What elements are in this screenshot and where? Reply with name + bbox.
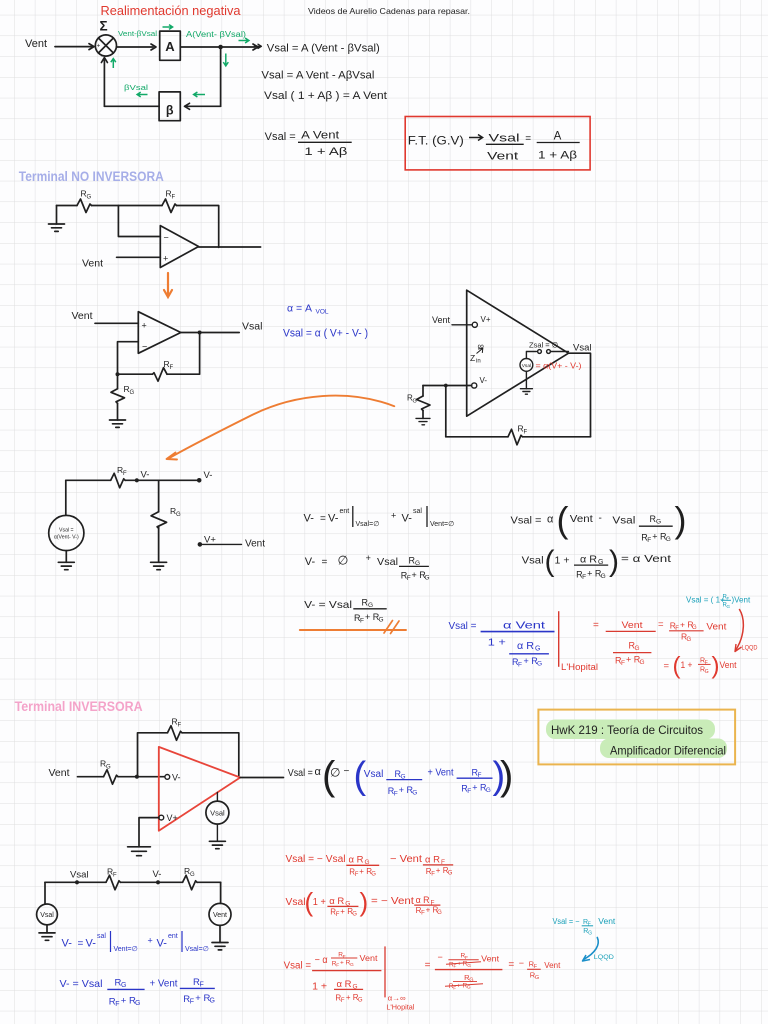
pin V+ terminal — [472, 322, 477, 327]
svg-text:α R: α R — [580, 555, 597, 566]
svg-text:+ Vent: + Vent — [428, 768, 454, 779]
svg-text:-: - — [599, 513, 602, 524]
svg-text:Vsal: Vsal — [364, 769, 384, 780]
resistor Rg — [104, 770, 119, 785]
wire top rail right + drop to output — [177, 206, 219, 248]
svg-text:in: in — [476, 359, 481, 365]
wire inverting input — [118, 342, 139, 375]
svg-text:G: G — [535, 646, 540, 653]
svg-text:G: G — [469, 978, 473, 984]
svg-text:=: = — [425, 960, 431, 971]
op-amp U1 triangle — [160, 226, 198, 268]
svg-text:G: G — [705, 669, 709, 675]
svg-text:α = A: α = A — [287, 303, 312, 315]
svg-text:F: F — [524, 430, 528, 436]
svg-text:V-: V- — [204, 470, 213, 481]
svg-text:G: G — [106, 765, 111, 771]
svg-text:G: G — [448, 871, 453, 877]
svg-text:α(Vent- V-): α(Vent- V-) — [54, 535, 79, 541]
svg-text:G: G — [412, 790, 417, 797]
svg-text:F: F — [588, 921, 591, 927]
svg-text:−: − — [164, 233, 169, 243]
resistor Rg vertical — [158, 480, 160, 512]
svg-text:): ) — [675, 499, 687, 540]
svg-text:F: F — [454, 964, 457, 970]
svg-text:Vent=∅: Vent=∅ — [114, 946, 138, 953]
svg-text:): ) — [360, 887, 369, 917]
svg-text:Vsal: Vsal — [40, 912, 54, 919]
svg-text:G: G — [130, 390, 135, 396]
svg-text:Vsal =: Vsal = — [288, 767, 313, 779]
ground G4 — [416, 418, 430, 424]
svg-text:Vsal =: Vsal = — [511, 515, 542, 527]
svg-text:Vsal: Vsal — [242, 321, 262, 333]
svg-text:A: A — [165, 39, 175, 54]
svg-text:V-: V- — [304, 513, 315, 525]
wire feedback into block B — [185, 103, 221, 109]
svg-text:Vsal: Vsal — [377, 556, 398, 568]
block B — [159, 92, 180, 121]
wire riser up into summing junction — [101, 58, 107, 107]
svg-text:∅: ∅ — [330, 766, 340, 780]
ground G6 — [58, 562, 74, 569]
op-amp U4 red triangle — [159, 747, 240, 831]
equation Vsal = A(Vent - BVsal) — [255, 44, 262, 48]
svg-text:Vent: Vent — [245, 539, 265, 550]
pin V- terminal — [165, 775, 170, 780]
svg-text:V-: V- — [305, 556, 316, 568]
ground G3 — [520, 389, 532, 395]
green left arrow under label — [137, 92, 147, 97]
source V4 Vsal — [44, 882, 46, 904]
svg-text:Vsal: Vsal — [612, 515, 635, 527]
svg-text:F: F — [647, 537, 651, 544]
source V3 Vsal at output — [216, 793, 218, 802]
svg-text:Vent: Vent — [720, 660, 737, 671]
svg-text:V+: V+ — [167, 813, 178, 823]
svg-text:−: − — [438, 952, 443, 962]
resistor Rg — [183, 875, 198, 890]
wire output — [181, 332, 239, 334]
svg-text:G: G — [190, 872, 195, 878]
svg-text:V-: V- — [141, 470, 150, 481]
svg-text:F: F — [705, 660, 708, 666]
svg-text:Vsal = ( 1+: Vsal = ( 1+ — [686, 596, 725, 605]
svg-text:α R: α R — [425, 855, 440, 866]
svg-text:− Vent: − Vent — [390, 854, 422, 865]
orange swoop arrow — [169, 396, 395, 459]
svg-text:α R: α R — [337, 979, 352, 990]
wire top rail left — [57, 205, 78, 207]
wire non-inverting input — [117, 256, 161, 258]
svg-text:G: G — [350, 962, 354, 968]
svg-text:G: G — [352, 911, 357, 917]
svg-text:F: F — [336, 912, 340, 918]
svg-text:Vent: Vent — [49, 767, 70, 779]
wire source to ground — [525, 371, 527, 388]
svg-text:+ R: + R — [436, 866, 449, 875]
node output junction — [198, 331, 202, 335]
svg-text:Vsal: Vsal — [70, 870, 88, 881]
svg-text:F: F — [115, 1001, 119, 1008]
resistor Rf — [153, 368, 168, 382]
svg-text:F: F — [621, 660, 625, 667]
pin terminals on output — [538, 350, 542, 354]
svg-text:Vsal: Vsal — [573, 343, 591, 354]
svg-text:F: F — [518, 662, 522, 669]
resistor Rf — [111, 473, 126, 488]
svg-text:Vent: Vent — [82, 258, 103, 270]
svg-text:Vent: Vent — [598, 917, 616, 926]
svg-text:Zsal = ∅: Zsal = ∅ — [529, 341, 559, 350]
svg-text:G: G — [467, 963, 471, 969]
svg-text:+ R: + R — [359, 867, 372, 876]
wire output right and down — [569, 353, 591, 437]
svg-text:(: ( — [557, 499, 569, 540]
source V1 dependent — [520, 359, 533, 372]
node Vsal dot — [75, 880, 79, 884]
svg-text:F.T. (G.V): F.T. (G.V) — [408, 136, 464, 148]
svg-text:Vsal =: Vsal = — [265, 131, 296, 143]
svg-text:LQQD: LQQD — [742, 645, 758, 652]
svg-text:F: F — [123, 471, 127, 477]
svg-text:HwK 219 : Teoría de Circuitos: HwK 219 : Teoría de Circuitos — [551, 723, 703, 737]
svg-text:Vent=∅: Vent=∅ — [430, 521, 454, 528]
svg-text:V-: V- — [157, 938, 168, 950]
svg-text:G: G — [121, 982, 126, 989]
svg-text:β: β — [166, 104, 174, 118]
green up arrow beside riser — [111, 59, 116, 68]
resistor Rf — [106, 875, 121, 890]
svg-text:1 +: 1 + — [681, 660, 693, 671]
op-amp U2 triangle — [138, 312, 181, 354]
svg-text:Vsal ( 1 + Aβ ) = A Vent: Vsal ( 1 + Aβ ) = A Vent — [264, 90, 387, 102]
svg-text:F: F — [467, 788, 471, 795]
svg-text:+ Vent: + Vent — [150, 978, 178, 990]
svg-text:F: F — [172, 195, 176, 201]
svg-text:Vsal =: Vsal = — [284, 961, 312, 972]
svg-text:α R: α R — [329, 896, 344, 907]
svg-text:F: F — [355, 872, 359, 878]
svg-text:α R: α R — [517, 641, 534, 652]
wire feedback riser — [138, 733, 168, 777]
svg-text:G: G — [413, 399, 417, 405]
svg-text:F: F — [421, 911, 425, 917]
red divider bar with L'Hopital — [558, 611, 560, 667]
svg-text:Vsal: Vsal — [522, 363, 531, 369]
wire output — [199, 246, 261, 248]
svg-text:G: G — [588, 930, 592, 936]
svg-text:V-: V- — [62, 938, 73, 950]
svg-text:Vent: Vent — [213, 912, 227, 919]
node junction dot — [135, 775, 139, 779]
svg-text:ent: ent — [340, 508, 350, 515]
svg-text:1 +: 1 + — [313, 897, 326, 908]
svg-text:VOL: VOL — [316, 309, 329, 316]
green left arrow right of B — [194, 92, 205, 97]
svg-text:G: G — [692, 625, 697, 631]
svg-text:+ R: + R — [340, 960, 351, 967]
svg-text:V-: V- — [480, 376, 488, 385]
svg-text:): ) — [712, 653, 720, 680]
svg-text:Amplificador Diferencial: Amplificador Diferencial — [610, 744, 726, 758]
pin V+ terminal — [159, 815, 164, 820]
svg-text:Terminal NO INVERSORA: Terminal NO INVERSORA — [19, 169, 164, 184]
svg-text:): ) — [500, 754, 513, 798]
svg-text:+ R: + R — [346, 993, 359, 1002]
svg-text:F: F — [582, 574, 586, 581]
svg-text:L'Hopital: L'Hopital — [386, 1003, 414, 1012]
svg-text:Vsal: Vsal — [286, 897, 306, 908]
resistor Rg vertical — [117, 374, 119, 389]
svg-text:Vsal=∅: Vsal=∅ — [356, 521, 380, 528]
svg-text:G: G — [379, 617, 384, 624]
svg-text:Vsal = − Vsal: Vsal = − Vsal — [286, 854, 346, 865]
svg-text:Vent: Vent — [360, 953, 379, 963]
svg-text:G: G — [437, 910, 442, 916]
svg-text:=: = — [664, 661, 670, 672]
green arrow above block A — [163, 25, 173, 30]
node junction — [116, 372, 120, 376]
green arrow at output — [239, 38, 249, 43]
wire junction down to bottom rail — [445, 386, 447, 437]
svg-text:=: = — [322, 557, 328, 568]
ground G1 — [49, 206, 65, 232]
resistor Rg — [77, 199, 92, 213]
source V5 Vent — [220, 882, 222, 903]
svg-text:+: + — [97, 43, 101, 50]
svg-text:G: G — [371, 871, 376, 877]
svg-text:+ R: + R — [340, 907, 353, 916]
svg-text:Vsal: Vsal — [522, 555, 544, 567]
wire inverting input branch — [118, 206, 160, 237]
svg-text:F: F — [341, 998, 345, 1004]
wire feedback vertical drop — [220, 47, 222, 106]
svg-text:−: − — [344, 766, 350, 777]
pin V- terminal — [472, 383, 477, 388]
svg-text:∅: ∅ — [338, 554, 349, 568]
svg-text:G: G — [87, 195, 92, 201]
wire block B to left riser — [104, 105, 159, 107]
svg-text:= α(V+ - V-): = α(V+ - V-) — [536, 361, 582, 371]
wire V+ to ground — [139, 818, 159, 847]
wire non-inverting input — [95, 322, 138, 324]
source V2 dependent — [65, 480, 67, 515]
svg-text:α: α — [315, 766, 322, 778]
red box F.T. — [405, 117, 590, 170]
svg-text:A: A — [554, 131, 562, 143]
svg-text:L'Hopital: L'Hopital — [561, 662, 598, 672]
svg-text:+: + — [142, 321, 147, 331]
svg-text:1 +: 1 + — [488, 637, 506, 649]
svg-text:Vsal =: Vsal = — [449, 620, 477, 632]
svg-text:sal: sal — [97, 933, 106, 940]
red curl arrow with LQQD — [736, 610, 744, 651]
wire output — [240, 777, 283, 779]
node V- junction dot — [135, 478, 139, 482]
ground G9 — [39, 933, 55, 940]
wire feedback down — [167, 333, 200, 375]
svg-text:G: G — [210, 998, 215, 1005]
wire bottom rail with resistor Rf — [446, 436, 508, 438]
svg-text:Z: Z — [470, 353, 475, 363]
svg-text:α R: α R — [349, 855, 364, 866]
node junction — [444, 384, 448, 388]
svg-text:−: − — [519, 958, 524, 968]
ground G2 — [110, 420, 126, 427]
svg-text:Vent: Vent — [487, 151, 518, 163]
svg-text:+: + — [391, 511, 396, 521]
svg-text:F: F — [336, 963, 339, 969]
svg-text:Vsal: Vsal — [489, 133, 520, 145]
svg-text:V- = Vsal: V- = Vsal — [60, 978, 103, 990]
svg-text:V-: V- — [172, 773, 181, 783]
svg-text:G: G — [666, 536, 671, 543]
svg-text:α→∞: α→∞ — [388, 994, 406, 1003]
svg-text:Vsal = A Vent - AβVsal: Vsal = A Vent - AβVsal — [261, 70, 374, 82]
node V- right dot — [197, 478, 202, 483]
svg-text:Vent: Vent — [570, 513, 593, 525]
svg-text:− α: − α — [315, 955, 328, 966]
svg-text:1 + Aβ: 1 + Aβ — [304, 146, 347, 158]
wire top rail mid — [92, 205, 163, 207]
svg-text:=: = — [508, 960, 514, 971]
ground G7 — [128, 847, 151, 856]
svg-text:+: + — [366, 553, 371, 563]
svg-text:G: G — [535, 975, 539, 981]
svg-text:G: G — [486, 787, 491, 794]
svg-text:F: F — [113, 873, 117, 879]
svg-text:Vent: Vent — [25, 38, 47, 50]
svg-text:V-: V- — [153, 869, 162, 880]
svg-text:=: = — [658, 619, 664, 630]
svg-text:G: G — [656, 519, 661, 526]
svg-text:G: G — [358, 997, 363, 1003]
resistor Rf — [168, 726, 183, 741]
svg-text:(: ( — [673, 653, 681, 680]
resistor Rg vertical — [422, 386, 424, 397]
svg-text:Vent: Vent — [622, 620, 643, 631]
wire input — [78, 776, 104, 778]
svg-text:=: = — [525, 134, 531, 145]
summing junction S1 — [95, 19, 116, 61]
svg-text:V- = Vsal: V- = Vsal — [304, 599, 352, 611]
svg-text:Vent: Vent — [432, 315, 451, 325]
op-amp U3 large triangle — [467, 290, 569, 416]
ground G8 — [209, 841, 225, 848]
svg-text:Vent: Vent — [481, 954, 500, 964]
svg-text:G: G — [601, 573, 606, 580]
svg-text:): ) — [609, 545, 619, 578]
svg-text:+: + — [148, 936, 153, 946]
svg-text:=: = — [320, 514, 326, 525]
node V- dot — [156, 880, 160, 884]
svg-text:G: G — [640, 659, 645, 666]
svg-text:Vsal = A (Vent - βVsal): Vsal = A (Vent - βVsal) — [267, 43, 380, 55]
green highlight — [546, 720, 715, 740]
svg-text:Vsal=∅: Vsal=∅ — [185, 946, 209, 953]
svg-text:sal: sal — [413, 508, 422, 515]
svg-text:G: G — [176, 512, 181, 518]
svg-text:1 + Aβ: 1 + Aβ — [538, 150, 577, 162]
svg-text:G: G — [537, 661, 542, 668]
svg-text:F: F — [200, 982, 204, 989]
svg-text:ent: ent — [168, 933, 178, 940]
svg-text:LQQD: LQQD — [594, 954, 614, 961]
ground G10 — [212, 943, 228, 950]
svg-text:Vent-βVsal: Vent-βVsal — [118, 29, 157, 38]
ground G5 — [151, 562, 167, 569]
svg-text:+ R: + R — [121, 996, 136, 1007]
teal curl arrow with LQQD — [584, 938, 599, 960]
svg-text:F: F — [407, 575, 411, 582]
node V+ with wire to Vent — [198, 542, 203, 547]
svg-text:Vsal =: Vsal = — [59, 528, 74, 534]
svg-text:F: F — [178, 723, 182, 729]
svg-text:F: F — [394, 791, 398, 798]
svg-text:1 +: 1 + — [312, 982, 327, 993]
svg-text:F: F — [190, 999, 194, 1006]
svg-text:(: ( — [545, 545, 555, 578]
wire to V+ pin — [452, 324, 472, 326]
wire top rail — [45, 881, 106, 883]
svg-text:+ R: + R — [195, 993, 210, 1004]
svg-text:F: F — [360, 618, 364, 625]
svg-text:Vent: Vent — [706, 622, 726, 633]
svg-text:Terminal INVERSORA: Terminal INVERSORA — [15, 699, 143, 714]
wire block A to output — [180, 44, 258, 50]
node junction on output — [218, 45, 223, 50]
svg-text:A Vent: A Vent — [301, 130, 339, 142]
svg-text:V-: V- — [86, 938, 97, 950]
wire summing junction to block A — [117, 44, 157, 50]
svg-text:Realimentación negativa: Realimentación negativa — [101, 4, 241, 18]
svg-text:V-: V- — [328, 513, 339, 525]
svg-text:Vent: Vent — [72, 310, 93, 322]
svg-text:=: = — [593, 620, 599, 631]
svg-text:G: G — [635, 645, 640, 652]
svg-text:G: G — [135, 1000, 140, 1007]
svg-text:G: G — [687, 637, 692, 643]
svg-text:V+: V+ — [481, 315, 491, 324]
svg-text:G: G — [467, 985, 471, 991]
svg-text:A(Vent- βVsal): A(Vent- βVsal) — [186, 30, 246, 39]
svg-text:+: + — [163, 254, 168, 264]
svg-text:G: G — [425, 575, 430, 582]
svg-text:V-: V- — [402, 513, 413, 525]
orange underline with slashes — [300, 629, 406, 631]
svg-text:−: − — [142, 342, 147, 352]
svg-text:Vsal: Vsal — [210, 809, 225, 818]
svg-text:=: = — [78, 939, 84, 950]
svg-text:α Vent: α Vent — [503, 620, 545, 632]
svg-text:= α Vent: = α Vent — [621, 553, 671, 565]
svg-text:βVsal: βVsal — [124, 83, 148, 92]
HWK219 box — [538, 710, 735, 765]
svg-text:α: α — [547, 514, 554, 526]
svg-text:F: F — [170, 365, 174, 371]
svg-text:Vent: Vent — [544, 960, 561, 970]
wire V- to left — [423, 385, 472, 387]
svg-text:Σ: Σ — [100, 19, 108, 34]
svg-text:Vsal = −: Vsal = − — [553, 917, 580, 926]
svg-text:)Vent: )Vent — [732, 596, 751, 605]
block A — [160, 31, 181, 60]
resistor Rf — [162, 199, 177, 213]
wire source to output — [526, 352, 536, 359]
wire top rail left — [66, 479, 111, 481]
wire feedback to inverting node — [118, 373, 153, 375]
